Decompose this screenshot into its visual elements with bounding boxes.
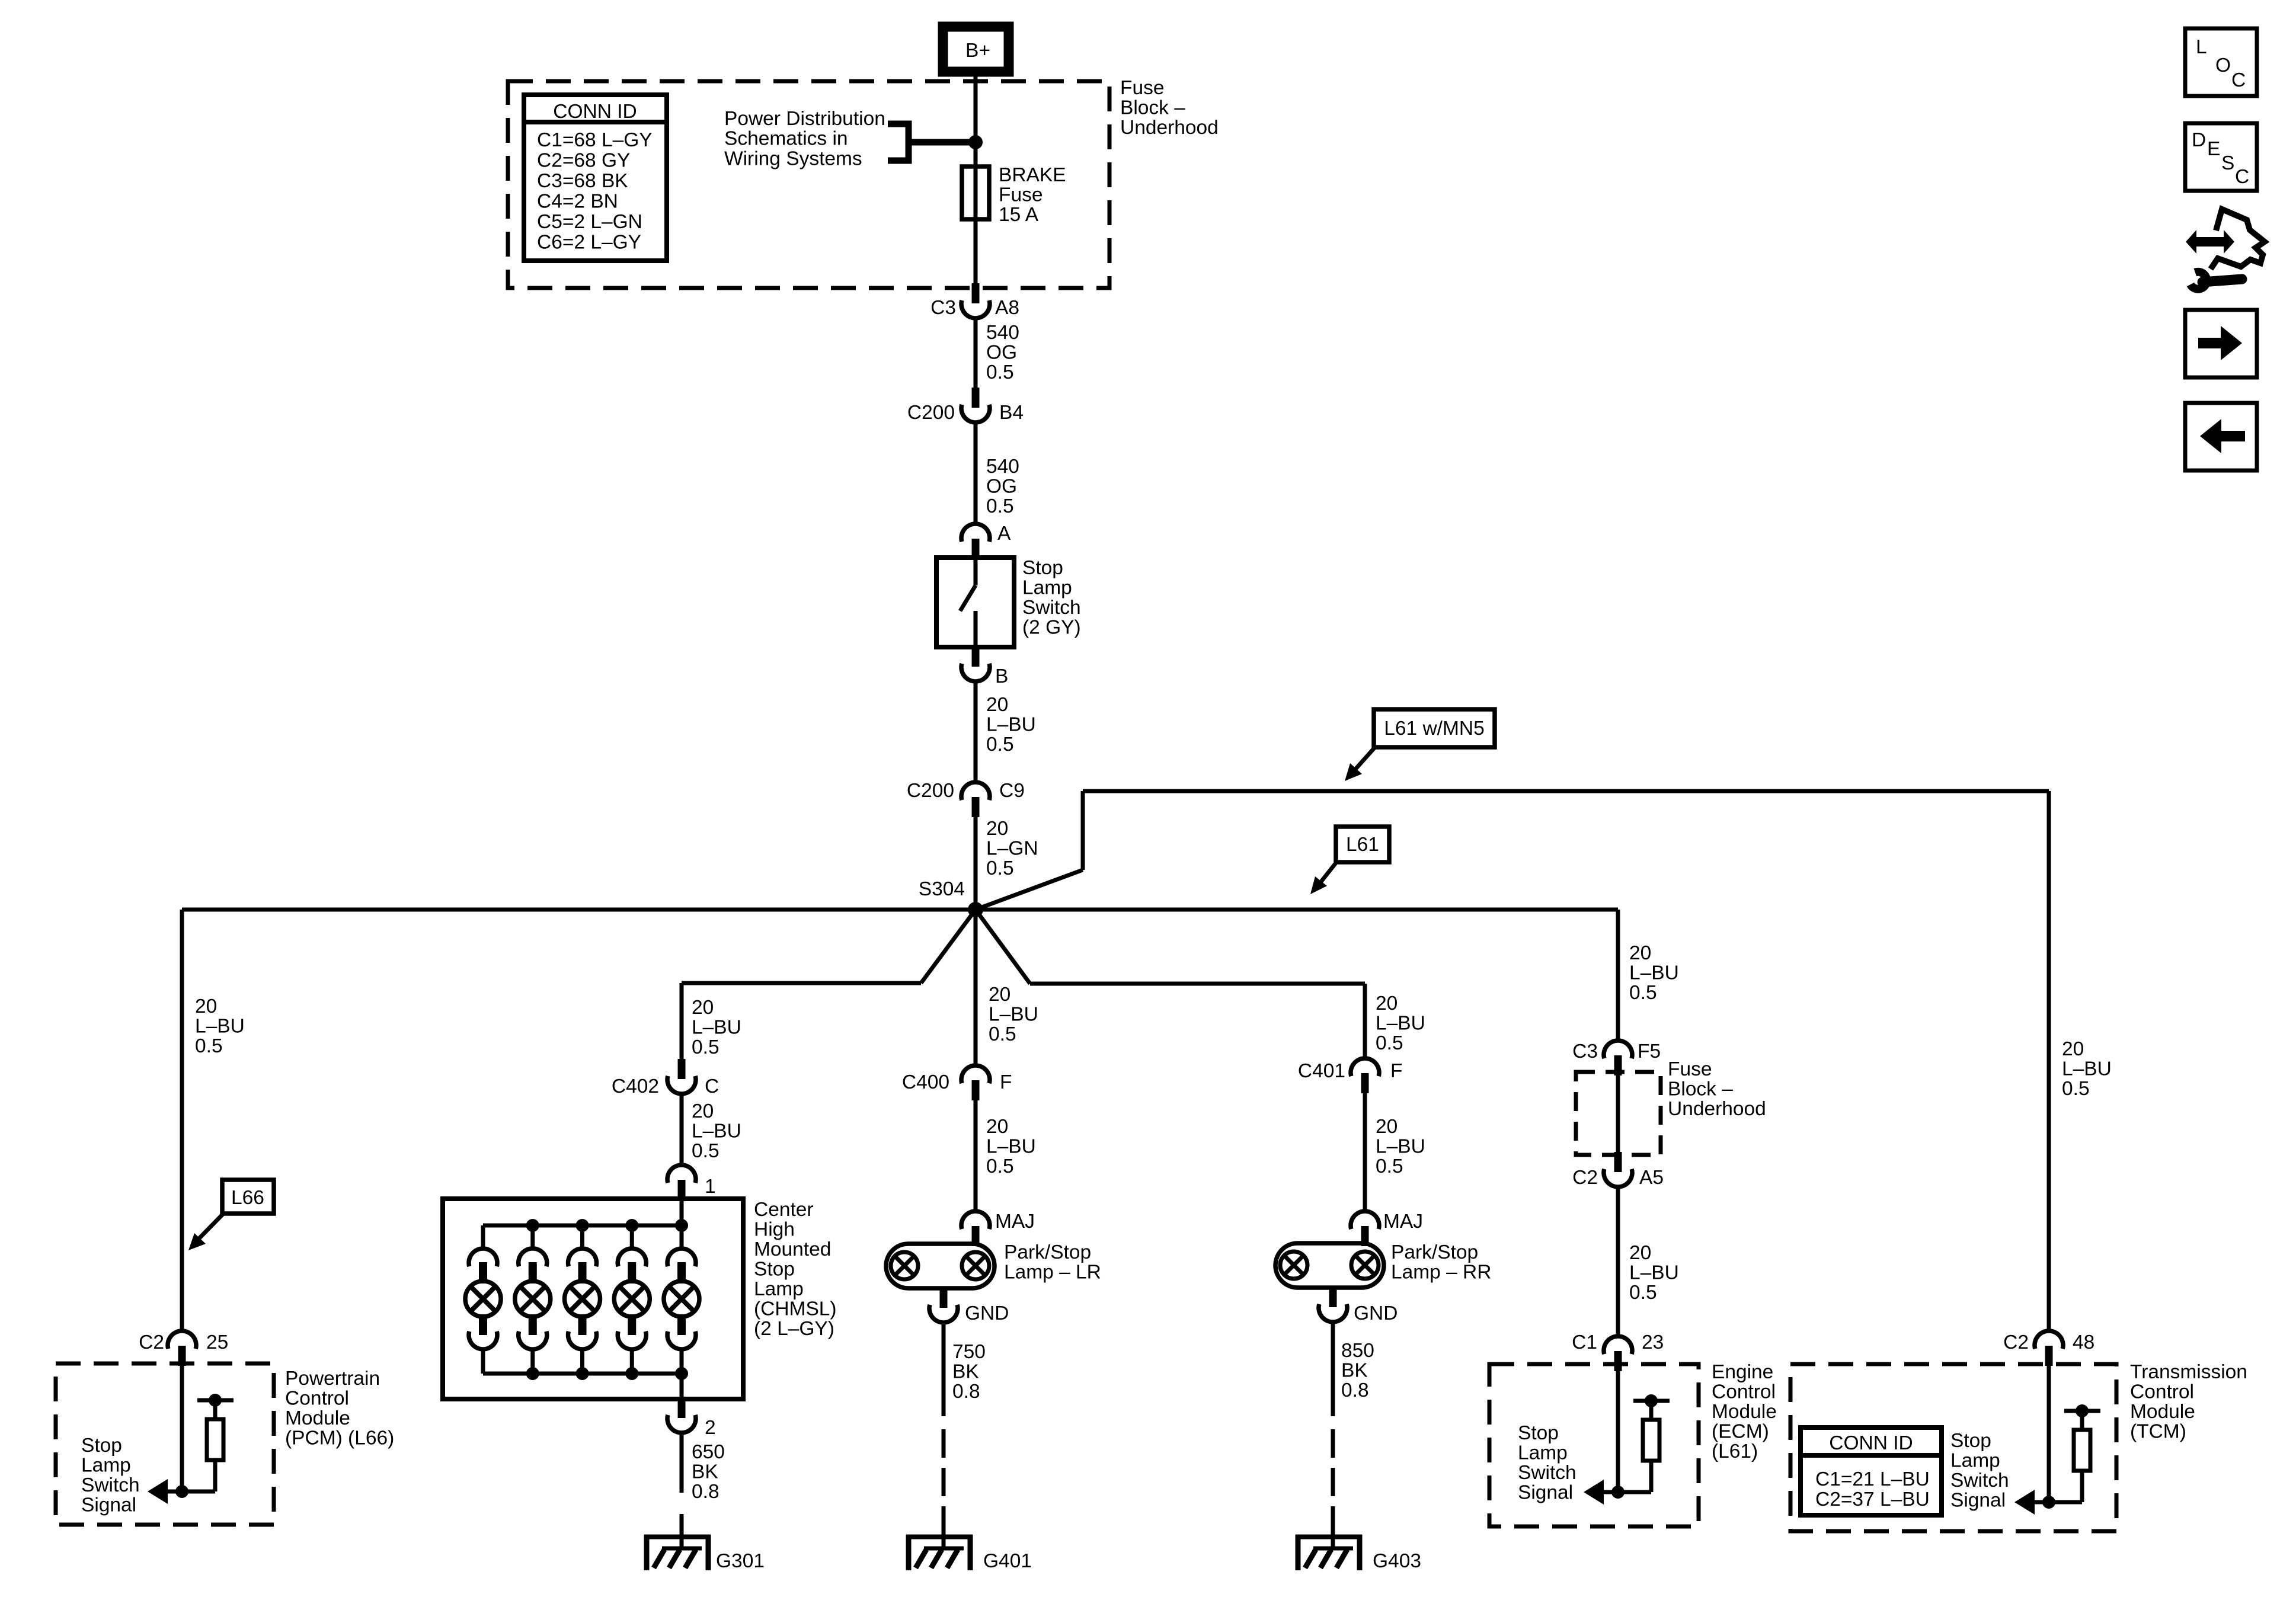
svg-text:Fuse: Fuse bbox=[999, 184, 1043, 206]
svg-text:E: E bbox=[2207, 138, 2220, 160]
CHMSL bottom bus junction bbox=[526, 1367, 539, 1380]
svg-text:15 A: 15 A bbox=[999, 204, 1039, 226]
CHMSL bulb 3 bbox=[565, 1225, 600, 1374]
svg-text:0.5: 0.5 bbox=[986, 495, 1014, 517]
connector pin MAJ of RR lamp bbox=[1361, 1226, 1369, 1246]
svg-text:Underhood: Underhood bbox=[1120, 117, 1219, 139]
svg-text:B+: B+ bbox=[965, 40, 990, 62]
svg-text:C2=37 L–BU: C2=37 L–BU bbox=[1815, 1489, 1930, 1510]
svg-text:20: 20 bbox=[2062, 1038, 2084, 1060]
svg-text:L–BU: L–BU bbox=[692, 1017, 741, 1039]
svg-text:C3=68 BK: C3=68 BK bbox=[537, 170, 628, 192]
svg-text:Signal: Signal bbox=[1950, 1490, 2006, 1512]
flag arrow L66 bbox=[194, 1214, 223, 1243]
svg-text:C1: C1 bbox=[1572, 1331, 1597, 1353]
svg-text:OG: OG bbox=[986, 476, 1017, 498]
svg-text:0.8: 0.8 bbox=[1341, 1379, 1369, 1401]
svg-text:Stop: Stop bbox=[81, 1435, 122, 1457]
svg-text:G401: G401 bbox=[983, 1550, 1032, 1572]
svg-text:L–BU: L–BU bbox=[195, 1016, 245, 1038]
wire C3 to C200 bbox=[974, 318, 978, 388]
flag box L61 w/MN5 bbox=[1374, 709, 1495, 747]
svg-text:Control: Control bbox=[2130, 1381, 2194, 1403]
park/stop lamp LR housing bbox=[886, 1244, 994, 1288]
CHMSL top bus junction bbox=[625, 1219, 638, 1232]
node junction dot at bracket bbox=[968, 135, 983, 149]
svg-text:C: C bbox=[2231, 69, 2246, 91]
svg-text:C400: C400 bbox=[902, 1071, 949, 1093]
svg-text:BK: BK bbox=[1341, 1360, 1368, 1382]
svg-text:0.5: 0.5 bbox=[692, 1036, 720, 1058]
svg-text:20: 20 bbox=[1376, 1116, 1398, 1138]
svg-text:Switch: Switch bbox=[1950, 1470, 2009, 1491]
svg-text:C6=2 L–GY: C6=2 L–GY bbox=[537, 232, 641, 254]
svg-text:Transmission: Transmission bbox=[2130, 1361, 2247, 1383]
connector pin 2 of CHMSL bbox=[678, 1398, 686, 1418]
svg-text:C402: C402 bbox=[612, 1076, 659, 1097]
connector pin B of stop lamp switch bbox=[972, 646, 980, 667]
ground G401 bbox=[906, 1514, 973, 1570]
connector pin GND of LR lamp bbox=[940, 1288, 948, 1308]
svg-text:BK: BK bbox=[952, 1361, 979, 1383]
TCM dashed box bbox=[1790, 1364, 2116, 1531]
svg-text:(PCM) (L66): (PCM) (L66) bbox=[285, 1427, 394, 1449]
dashed wire to G403 bbox=[1331, 1429, 1335, 1535]
svg-text:Module: Module bbox=[1712, 1401, 1777, 1423]
svg-text:Lamp – LR: Lamp – LR bbox=[1004, 1262, 1101, 1283]
svg-text:GND: GND bbox=[1354, 1302, 1398, 1324]
svg-text:L–BU: L–BU bbox=[1629, 1262, 1679, 1284]
svg-text:20: 20 bbox=[1376, 993, 1398, 1014]
svg-text:A: A bbox=[997, 523, 1011, 545]
svg-text:CONN ID: CONN ID bbox=[553, 101, 637, 123]
DESC icon box bbox=[2185, 123, 2257, 191]
svg-text:20: 20 bbox=[986, 1116, 1008, 1138]
connector C3 pin A8 bbox=[972, 283, 980, 303]
svg-text:0.5: 0.5 bbox=[1629, 1282, 1657, 1304]
svg-text:Module: Module bbox=[2130, 1401, 2195, 1423]
svg-text:0.5: 0.5 bbox=[1629, 982, 1657, 1004]
RR GND stub bbox=[1329, 1288, 1337, 1305]
wire S304 diagonal to CHMSL bbox=[921, 910, 976, 983]
connector C402 pin C bbox=[678, 1059, 686, 1079]
svg-text:Stop: Stop bbox=[1950, 1430, 1991, 1452]
svg-text:0.5: 0.5 bbox=[986, 361, 1014, 383]
connector C400 pin F bbox=[972, 1080, 980, 1100]
svg-text:0.5: 0.5 bbox=[195, 1035, 223, 1057]
svg-text:C3: C3 bbox=[930, 297, 956, 319]
service icon wrench bbox=[2191, 272, 2207, 289]
CHMSL box bbox=[443, 1199, 743, 1399]
svg-text:(2 GY): (2 GY) bbox=[1022, 617, 1081, 639]
connector C401 pin F bbox=[1361, 1073, 1369, 1093]
svg-text:F: F bbox=[1000, 1071, 1012, 1093]
svg-text:C1=21 L–BU: C1=21 L–BU bbox=[1815, 1468, 1930, 1490]
svg-text:Block –: Block – bbox=[1668, 1078, 1733, 1100]
LOC icon box bbox=[2185, 28, 2257, 96]
svg-text:Power Distribution: Power Distribution bbox=[724, 108, 885, 130]
svg-text:F: F bbox=[1390, 1060, 1402, 1082]
svg-text:0.5: 0.5 bbox=[1376, 1156, 1403, 1177]
svg-text:C401: C401 bbox=[1298, 1060, 1345, 1082]
svg-text:(2 L–GY): (2 L–GY) bbox=[754, 1318, 834, 1340]
park/stop lamp RR housing bbox=[1275, 1243, 1384, 1288]
svg-text:Lamp: Lamp bbox=[1022, 577, 1072, 599]
wire B to C200 C9 bbox=[974, 681, 978, 782]
svg-text:(ECM): (ECM) bbox=[1712, 1421, 1769, 1443]
wire S304 down to C400 bbox=[974, 910, 978, 1066]
svg-text:0.8: 0.8 bbox=[692, 1481, 720, 1503]
wire C402 to CHMSL bbox=[680, 1094, 684, 1166]
svg-text:A8: A8 bbox=[995, 297, 1019, 319]
wire S304 to left bbox=[182, 908, 976, 912]
wire CHMSL exit bbox=[680, 1374, 684, 1399]
svg-text:MAJ: MAJ bbox=[995, 1211, 1035, 1233]
connector pin MAJ of LR lamp bbox=[972, 1226, 980, 1246]
svg-text:Powertrain: Powertrain bbox=[285, 1368, 380, 1390]
CONN ID table (TCM) bbox=[1801, 1427, 1942, 1515]
ground G301 bbox=[644, 1514, 711, 1570]
svg-text:20: 20 bbox=[986, 818, 1008, 840]
RR lamp bulb right bbox=[1351, 1251, 1379, 1279]
next page arrow icon bbox=[2185, 310, 2257, 377]
wire horizontal to RR bbox=[1030, 982, 1365, 986]
connector pin GND of RR lamp bbox=[1329, 1287, 1337, 1307]
svg-text:L–BU: L–BU bbox=[986, 1136, 1036, 1158]
svg-text:20: 20 bbox=[692, 997, 714, 1019]
LR GND stub bbox=[940, 1288, 948, 1306]
LR lamp bulb right bbox=[962, 1252, 989, 1279]
wire C401 to RR lamp bbox=[1363, 1093, 1367, 1212]
connector C200 pin C9 bbox=[972, 797, 980, 817]
svg-text:Switch: Switch bbox=[1022, 597, 1081, 619]
svg-text:S304: S304 bbox=[919, 878, 965, 900]
svg-text:C4=2 BN: C4=2 BN bbox=[537, 191, 618, 213]
svg-text:20: 20 bbox=[986, 694, 1008, 716]
connector C2 pin A5 bbox=[1614, 1152, 1622, 1172]
svg-text:0.5: 0.5 bbox=[1376, 1032, 1403, 1054]
svg-text:L–BU: L–BU bbox=[2062, 1058, 2112, 1080]
svg-text:(L61): (L61) bbox=[1712, 1441, 1758, 1462]
wire down to C401 bbox=[1363, 984, 1367, 1059]
svg-text:Stop: Stop bbox=[754, 1259, 795, 1281]
svg-text:D: D bbox=[2192, 129, 2206, 151]
svg-text:Lamp – RR: Lamp – RR bbox=[1391, 1262, 1491, 1283]
wire S304 diagonal up-right bbox=[976, 870, 1083, 910]
wire C9 to splice S304 bbox=[974, 817, 978, 910]
svg-text:0.5: 0.5 bbox=[986, 857, 1014, 879]
CHMSL bulb 5 bbox=[664, 1225, 699, 1374]
wire L61 w/MN5 horizontal bbox=[1083, 789, 2049, 793]
svg-text:C2: C2 bbox=[2003, 1331, 2029, 1353]
svg-text:GND: GND bbox=[965, 1302, 1009, 1324]
note bracket bbox=[888, 124, 976, 161]
wire GND to G403 bbox=[1331, 1322, 1335, 1416]
svg-text:Control: Control bbox=[1712, 1381, 1776, 1403]
connector pin A of stop lamp switch bbox=[972, 539, 980, 559]
flag box L61 bbox=[1336, 827, 1389, 862]
svg-text:Signal: Signal bbox=[81, 1494, 136, 1516]
fuse block underhood dashed box bbox=[508, 81, 1109, 288]
CHMSL bulb 4 bbox=[614, 1225, 650, 1374]
wire into ECM bbox=[1616, 1364, 1620, 1492]
wire S304 diagonal to RR bbox=[976, 910, 1030, 984]
svg-text:0.5: 0.5 bbox=[986, 734, 1014, 756]
service icon double arrow bbox=[2196, 237, 2224, 247]
svg-text:Lamp: Lamp bbox=[81, 1455, 131, 1477]
svg-text:(TCM): (TCM) bbox=[2130, 1421, 2186, 1443]
svg-text:L–BU: L–BU bbox=[1376, 1136, 1425, 1158]
svg-text:L–BU: L–BU bbox=[1629, 962, 1679, 984]
svg-text:F5: F5 bbox=[1638, 1041, 1661, 1062]
svg-text:Module: Module bbox=[285, 1407, 350, 1429]
svg-text:20: 20 bbox=[195, 996, 217, 1017]
svg-text:20: 20 bbox=[692, 1100, 714, 1122]
svg-text:L: L bbox=[2196, 36, 2207, 58]
svg-text:Center: Center bbox=[754, 1199, 814, 1221]
LR lamp bulb left bbox=[891, 1252, 918, 1279]
svg-text:0.5: 0.5 bbox=[2062, 1078, 2090, 1100]
svg-text:L61 w/MN5: L61 w/MN5 bbox=[1384, 718, 1484, 740]
stop lamp switch box bbox=[936, 558, 1014, 647]
svg-text:Control: Control bbox=[285, 1388, 349, 1410]
splice S304 bbox=[968, 902, 983, 917]
svg-text:C5=2 L–GN: C5=2 L–GN bbox=[537, 211, 642, 233]
svg-text:L–BU: L–BU bbox=[986, 714, 1036, 736]
CHMSL top bus junction bbox=[675, 1219, 688, 1232]
svg-text:Engine: Engine bbox=[1712, 1361, 1773, 1383]
wire GND to G401 bbox=[942, 1323, 946, 1416]
svg-text:Mounted: Mounted bbox=[754, 1238, 831, 1260]
connector C1 pin 23 (ECM) bbox=[1614, 1351, 1622, 1371]
wire down to PCM bbox=[180, 910, 184, 1331]
flag arrow L61 w/MN5 bbox=[1351, 747, 1375, 774]
svg-text:G301: G301 bbox=[716, 1550, 765, 1572]
fuse BRAKE 15 A bbox=[962, 167, 989, 219]
svg-text:BK: BK bbox=[692, 1461, 718, 1483]
svg-text:OG: OG bbox=[986, 342, 1017, 364]
svg-text:C1=68 L–GY: C1=68 L–GY bbox=[537, 129, 653, 151]
dashed wire to G401 bbox=[942, 1429, 946, 1535]
CHMSL bottom bus bbox=[483, 1372, 682, 1376]
svg-text:750: 750 bbox=[952, 1341, 986, 1363]
svg-text:Wiring Systems: Wiring Systems bbox=[724, 148, 862, 169]
PCM dashed box bbox=[56, 1363, 274, 1525]
wire C200 to stop lamp switch bbox=[974, 422, 978, 524]
wire B+ to BRAKE fuse bbox=[974, 73, 978, 283]
svg-text:Stop: Stop bbox=[1518, 1422, 1559, 1444]
svg-text:L–GN: L–GN bbox=[986, 838, 1038, 860]
wire into PCM bbox=[180, 1363, 184, 1491]
ECM dashed box bbox=[1489, 1364, 1699, 1526]
svg-text:Lamp: Lamp bbox=[1518, 1442, 1568, 1464]
svg-text:L–BU: L–BU bbox=[989, 1004, 1038, 1026]
connector C2 pin 25 (PCM) bbox=[178, 1346, 186, 1366]
svg-text:L–BU: L–BU bbox=[692, 1121, 741, 1142]
svg-text:20: 20 bbox=[1629, 942, 1651, 964]
svg-text:C9: C9 bbox=[999, 780, 1025, 802]
svg-text:850: 850 bbox=[1341, 1340, 1374, 1362]
CHMSL bulb 1 bbox=[465, 1225, 501, 1374]
previous page arrow icon bbox=[2185, 403, 2257, 470]
svg-text:Stop: Stop bbox=[1022, 557, 1063, 579]
svg-text:2: 2 bbox=[705, 1417, 716, 1439]
CHMSL top bus junction bbox=[526, 1219, 539, 1232]
svg-text:Switch: Switch bbox=[1518, 1462, 1576, 1484]
svg-text:Signal: Signal bbox=[1518, 1482, 1573, 1504]
svg-text:C200: C200 bbox=[907, 780, 954, 802]
svg-text:Fuse: Fuse bbox=[1120, 77, 1164, 99]
svg-text:High: High bbox=[754, 1219, 795, 1241]
svg-text:O: O bbox=[2215, 55, 2231, 76]
svg-text:S: S bbox=[2221, 152, 2234, 174]
svg-text:540: 540 bbox=[986, 322, 1019, 344]
svg-text:BRAKE: BRAKE bbox=[999, 164, 1066, 186]
svg-text:20: 20 bbox=[989, 984, 1011, 1006]
svg-text:Lamp: Lamp bbox=[754, 1278, 804, 1300]
svg-text:C: C bbox=[705, 1076, 719, 1097]
wire to G301 bbox=[680, 1433, 684, 1493]
svg-text:A5: A5 bbox=[1639, 1167, 1664, 1189]
ECM internal resistor and signal arrow bbox=[1584, 1394, 1670, 1505]
svg-text:650: 650 bbox=[692, 1441, 725, 1463]
svg-text:Lamp: Lamp bbox=[1950, 1450, 2000, 1472]
wire into TCM bbox=[2047, 1364, 2051, 1502]
B+ battery feed terminal bbox=[943, 27, 1009, 72]
svg-text:Underhood: Underhood bbox=[1668, 1098, 1766, 1120]
CHMSL bottom bus junction bbox=[675, 1367, 688, 1380]
svg-text:Fuse: Fuse bbox=[1668, 1058, 1712, 1080]
wire A5 to C1 23 bbox=[1616, 1187, 1620, 1337]
wire down to C402 bbox=[680, 983, 684, 1061]
connector C3 pin F5 bbox=[1614, 1055, 1622, 1076]
connector pin 1 of CHMSL bbox=[678, 1180, 686, 1200]
svg-text:Block –: Block – bbox=[1120, 97, 1185, 119]
RR lamp bulb left bbox=[1280, 1251, 1307, 1279]
svg-text:540: 540 bbox=[986, 456, 1019, 478]
svg-text:C: C bbox=[2235, 166, 2249, 188]
svg-text:0.5: 0.5 bbox=[986, 1156, 1014, 1177]
CHMSL top bus junction bbox=[576, 1219, 589, 1232]
connector C2 pin 48 (TCM) bbox=[2045, 1346, 2053, 1366]
svg-text:C2: C2 bbox=[139, 1331, 164, 1353]
svg-text:20: 20 bbox=[1629, 1242, 1651, 1264]
wire through fuse block bbox=[1616, 1076, 1620, 1153]
svg-text:L66: L66 bbox=[231, 1187, 264, 1209]
wire down to TCM bbox=[2047, 791, 2051, 1331]
CHMSL bottom bus junction bbox=[625, 1367, 638, 1380]
svg-text:1: 1 bbox=[705, 1176, 716, 1198]
svg-text:(CHMSL): (CHMSL) bbox=[754, 1298, 837, 1320]
CHMSL bulb 2 bbox=[515, 1225, 551, 1374]
CHMSL bottom bus junction bbox=[576, 1367, 589, 1380]
svg-text:0.5: 0.5 bbox=[989, 1023, 1016, 1045]
wire C400 to LR lamp bbox=[974, 1100, 978, 1212]
PCM internal resistor and signal arrow bbox=[148, 1394, 234, 1504]
flag box L66 bbox=[222, 1180, 274, 1214]
svg-text:G403: G403 bbox=[1373, 1550, 1421, 1572]
service icon harness outline bbox=[2211, 209, 2265, 269]
svg-text:0.8: 0.8 bbox=[952, 1381, 980, 1403]
svg-text:CONN ID: CONN ID bbox=[1829, 1432, 1913, 1454]
svg-text:B4: B4 bbox=[999, 402, 1024, 424]
svg-text:C2: C2 bbox=[1572, 1167, 1598, 1189]
svg-text:C2=68 GY: C2=68 GY bbox=[537, 150, 630, 172]
stop lamp switch blade bbox=[960, 585, 976, 611]
TCM internal resistor and signal arrow bbox=[2014, 1404, 2100, 1515]
CONN ID table (fuse block) bbox=[524, 95, 667, 261]
flag arrow L61 bbox=[1316, 862, 1336, 888]
svg-text:L–BU: L–BU bbox=[1376, 1013, 1425, 1035]
wire horizontal to CHMSL bbox=[682, 981, 921, 985]
svg-text:48: 48 bbox=[2073, 1331, 2094, 1353]
svg-text:Schematics in: Schematics in bbox=[724, 128, 848, 150]
CHMSL top bus bbox=[483, 1224, 682, 1228]
connector C200 pin B4 bbox=[972, 388, 980, 408]
fuse block underhood small dashed box bbox=[1576, 1072, 1661, 1155]
svg-text:C3: C3 bbox=[1572, 1041, 1598, 1062]
svg-text:Park/Stop: Park/Stop bbox=[1391, 1241, 1478, 1263]
svg-text:0.5: 0.5 bbox=[692, 1140, 720, 1162]
wire into CHMSL bbox=[680, 1199, 684, 1225]
svg-text:L61: L61 bbox=[1346, 834, 1379, 856]
stop lamp switch contact wire bbox=[974, 558, 978, 585]
svg-text:MAJ: MAJ bbox=[1383, 1211, 1423, 1233]
wire S304 to right bbox=[976, 908, 1618, 912]
svg-text:23: 23 bbox=[1642, 1331, 1664, 1353]
stop lamp switch lower contact bbox=[974, 611, 978, 647]
ground G403 bbox=[1296, 1514, 1362, 1570]
svg-text:C200: C200 bbox=[907, 402, 955, 424]
wire up to MN5 line bbox=[1081, 791, 1085, 870]
wire down to C3 F5 bbox=[1616, 910, 1620, 1041]
svg-text:25: 25 bbox=[206, 1331, 228, 1353]
svg-text:Switch: Switch bbox=[81, 1474, 140, 1496]
svg-text:B: B bbox=[995, 665, 1008, 687]
svg-text:Park/Stop: Park/Stop bbox=[1004, 1241, 1091, 1263]
